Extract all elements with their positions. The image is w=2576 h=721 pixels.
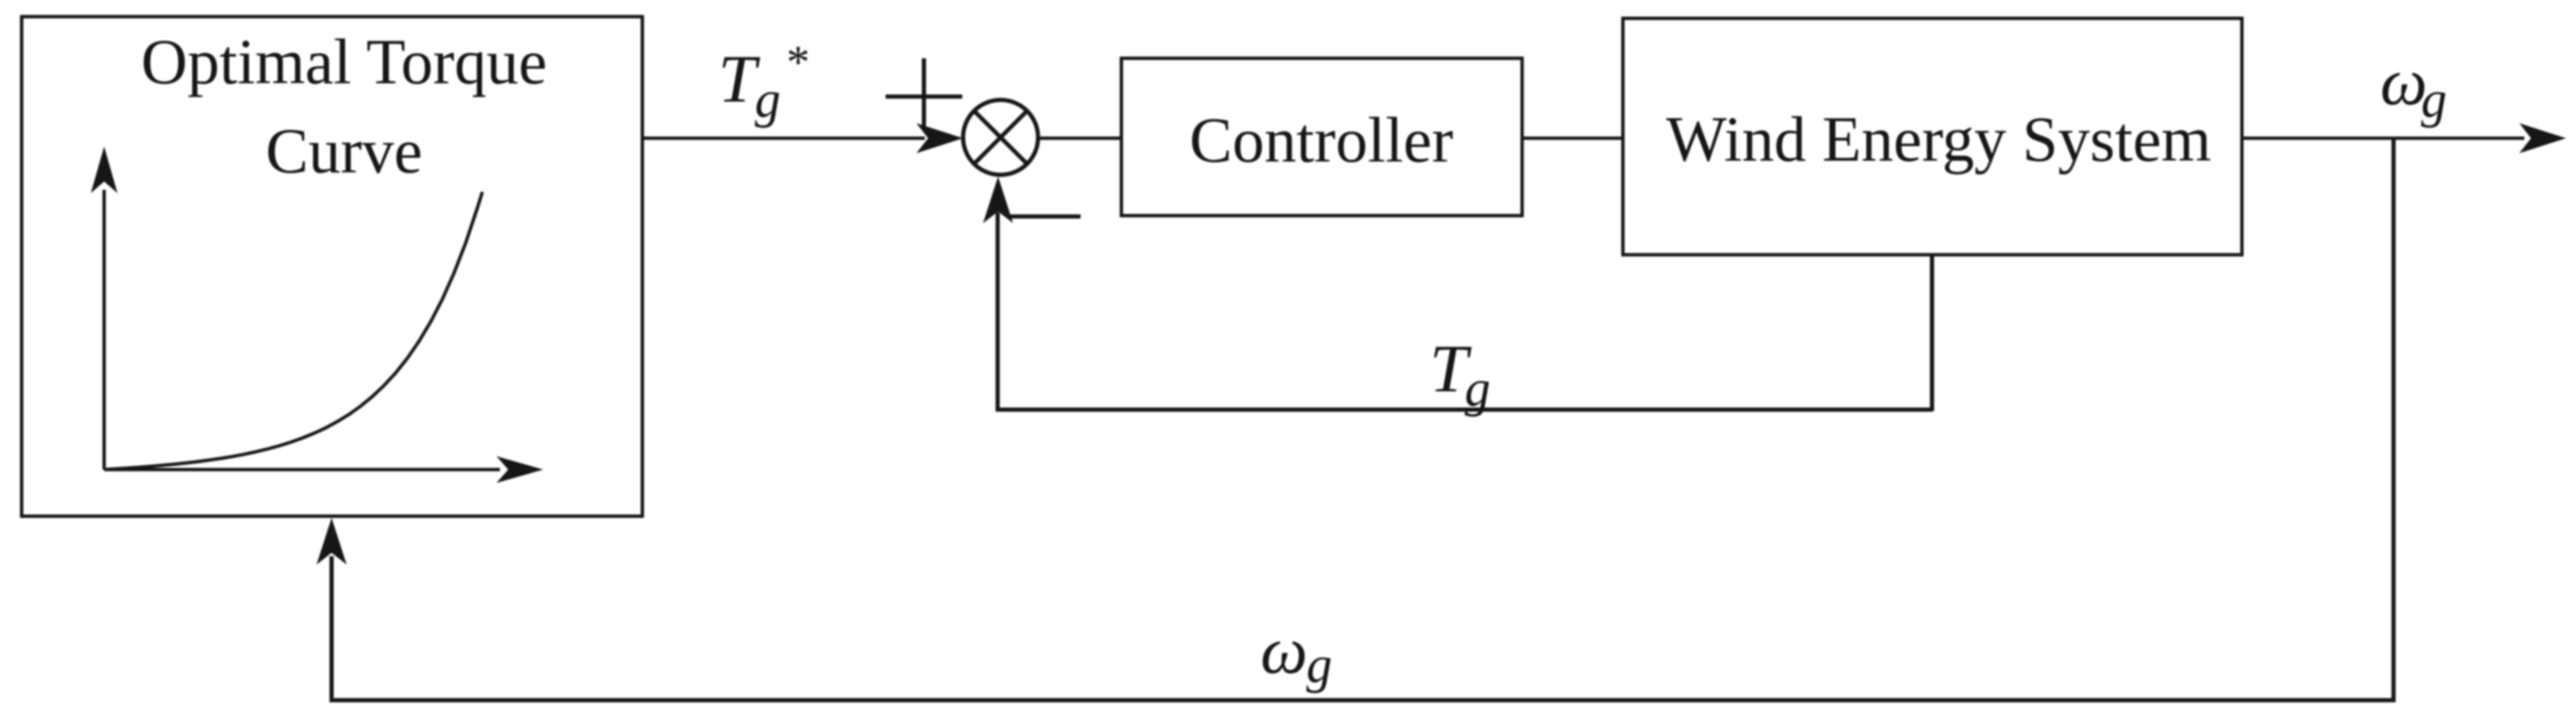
svg-text:*: * [786,37,810,88]
svg-text:g: g [1306,637,1332,694]
svg-text:Optimal Torque: Optimal Torque [141,26,547,97]
svg-text:ω: ω [1261,614,1307,688]
svg-text:g: g [2421,72,2447,128]
svg-text:g: g [1465,360,1490,417]
svg-text:Curve: Curve [266,115,422,186]
svg-text:g: g [755,72,781,128]
svg-text:Controller: Controller [1190,104,1454,176]
svg-text:Wind Energy System: Wind Energy System [1666,103,2211,175]
svg-text:ω: ω [2380,46,2427,119]
